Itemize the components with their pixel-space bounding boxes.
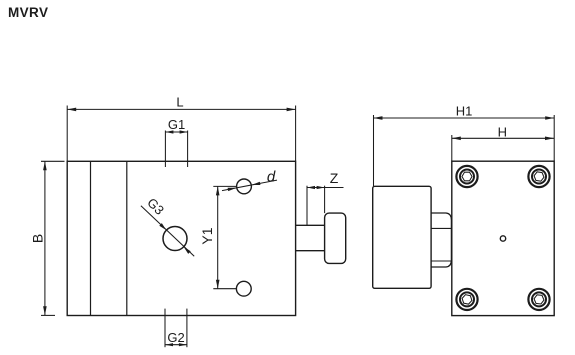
arrowhead H1 left — [374, 116, 383, 120]
bolt top-left outer ring — [456, 166, 477, 187]
dimension Z extension line right — [324, 186, 326, 213]
dimension G2 extension line right — [186, 309, 188, 348]
arrowhead d left — [228, 188, 237, 191]
bolt top-right hex socket — [534, 172, 544, 181]
body inner vertical line 1 — [90, 161, 92, 315]
adjuster stem bottom line — [296, 250, 325, 252]
bolt top-left hex socket — [462, 172, 472, 181]
side plate outline (side view) — [452, 161, 554, 315]
svg-text:H: H — [498, 124, 507, 139]
adjuster knob — [325, 213, 346, 263]
dimension Y1 extension line top — [213, 185, 236, 187]
dimension Z extension line left — [306, 186, 308, 226]
dimension H line — [452, 137, 554, 139]
bolt top-right outer ring — [528, 166, 549, 187]
bolt top-left inner ring — [460, 170, 474, 184]
arrowhead d right — [251, 182, 260, 185]
arrowhead G3 upper — [159, 223, 166, 230]
dimension H1 extension line left — [373, 115, 375, 186]
dimension B extension line bottom — [41, 314, 55, 316]
svg-text:G3: G3 — [144, 195, 167, 218]
body inner vertical line 2 — [126, 161, 128, 315]
arrowhead L right — [287, 108, 296, 112]
port hole G3 circle — [163, 227, 187, 251]
dimension H1 line — [374, 117, 555, 119]
dimension H1 extension line right — [553, 115, 555, 161]
bolt bottom-left inner ring — [460, 292, 474, 306]
hole d circle (top) — [237, 179, 252, 194]
dimension G1 extension line right — [187, 131, 189, 168]
hex nut face line lower — [431, 260, 451, 262]
arrowhead G2 left — [165, 343, 173, 346]
arrowhead G1 right — [180, 130, 188, 133]
arrowhead Y1 top — [216, 186, 220, 195]
arrowhead H right — [545, 137, 554, 141]
arrowhead Z left — [307, 186, 315, 189]
bolt bottom-right outer ring — [528, 289, 549, 310]
arrowhead G2 right — [179, 343, 187, 346]
dimension Z line — [307, 187, 344, 189]
dimension L extension line left — [66, 106, 68, 162]
hex nut face line upper — [431, 227, 451, 229]
arrowhead G3 lower — [184, 247, 191, 254]
arrowhead B bottom — [43, 306, 47, 315]
dimension B line — [44, 161, 46, 315]
arrowhead G1 left — [165, 130, 173, 133]
valve body outline (front view) — [67, 161, 295, 315]
leader line d — [222, 180, 277, 191]
dimension G1 extension line left — [164, 131, 166, 168]
svg-text:H1: H1 — [456, 104, 473, 119]
adjuster stem top line — [296, 224, 325, 226]
leader line G3 — [141, 206, 194, 256]
svg-text:G1: G1 — [168, 117, 185, 132]
svg-text:G2: G2 — [167, 330, 184, 345]
svg-text:d: d — [267, 169, 276, 186]
dimension Y1 line — [217, 186, 219, 288]
svg-text:Z: Z — [330, 170, 339, 186]
arrowhead Y1 bottom — [216, 280, 220, 289]
bolt bottom-left hex socket — [462, 295, 472, 305]
dimension L line — [67, 108, 295, 110]
dimension G2 line — [165, 344, 187, 346]
svg-text:L: L — [176, 95, 183, 110]
dimension B extension line top — [41, 160, 65, 162]
hole circle (bottom) — [236, 281, 251, 296]
arrowhead L left — [67, 108, 76, 112]
dimension G1 line — [165, 131, 187, 133]
arrowhead H1 right — [545, 116, 554, 120]
dimension Y1 extension line bottom — [213, 288, 236, 290]
hex nut outline — [431, 213, 451, 267]
arrowhead B top — [43, 161, 47, 170]
bolt bottom-right inner ring — [532, 292, 546, 306]
small center hole — [500, 236, 505, 241]
bolt bottom-left outer ring — [456, 289, 477, 310]
arrowhead H left — [452, 137, 461, 141]
solenoid block — [373, 186, 431, 288]
bolt bottom-right hex socket — [534, 295, 544, 304]
dimension G2 extension line left — [164, 309, 166, 348]
arrowhead Z right — [317, 186, 325, 189]
bolt top-right inner ring — [532, 170, 546, 184]
dimension L extension line right — [295, 106, 297, 162]
svg-text:Y1: Y1 — [199, 227, 215, 244]
svg-text:MVRV: MVRV — [8, 5, 48, 20]
dimension H extension line left — [451, 135, 453, 161]
svg-text:B: B — [30, 234, 46, 243]
